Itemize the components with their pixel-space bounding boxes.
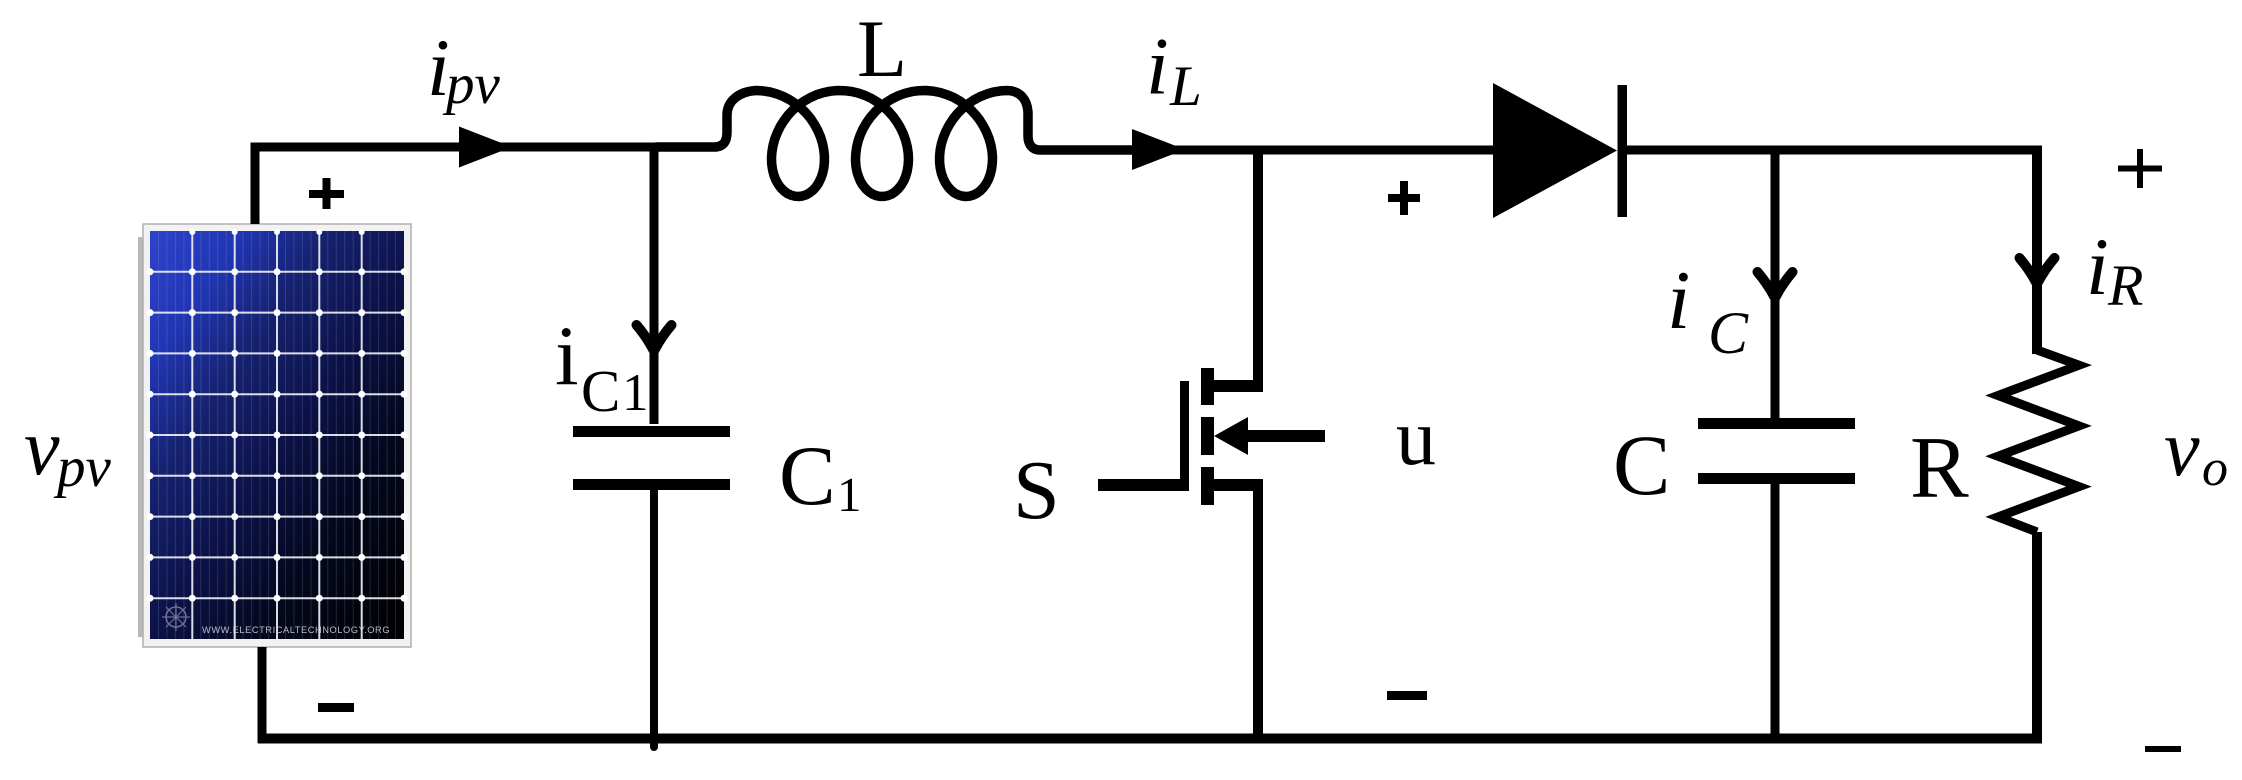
svg-text:i: i (1146, 21, 1169, 112)
wire: C bottom stem (1771, 478, 1780, 742)
MOSFET S: drain lead (1210, 380, 1263, 392)
arrow i_L (1132, 129, 1185, 170)
label i_pv (427, 22, 501, 116)
wire: right branch top (2032, 150, 2042, 354)
arrow chevron i_R (2020, 258, 2055, 283)
diode cathode bar (1618, 85, 1628, 217)
plus sign at panel positive terminal (309, 178, 344, 209)
svg-text:i: i (1667, 254, 1690, 347)
plus sign top right (2118, 149, 2162, 188)
svg-text:C: C (1708, 300, 1749, 366)
label C1 (779, 429, 862, 523)
svg-text:v: v (2164, 405, 2200, 493)
svg-text:R: R (1910, 420, 1969, 517)
svg-text:WWW.ELECTRICALTECHNOLOGY.ORG: WWW.ELECTRICALTECHNOLOGY.ORG (202, 625, 390, 635)
label i_C1 (555, 309, 649, 424)
plus sign near MOSFET drain (1388, 181, 1420, 215)
capacitor C1 (573, 432, 730, 485)
svg-text:R: R (2107, 253, 2143, 318)
minus sign at panel negative terminal (318, 703, 354, 712)
wire: panel plus lead (top-left vertical) (251, 147, 260, 224)
wire: capacitor C stem (1771, 150, 1780, 420)
svg-text:1: 1 (622, 364, 649, 422)
capacitor C plates (1698, 424, 1855, 479)
wire: top rail right of diode (1627, 146, 2042, 155)
label i_R (2086, 221, 2143, 318)
wire: panel minus lead (bottom-left vertical) (258, 647, 267, 743)
svg-text:S: S (1013, 444, 1060, 537)
solar panel PV module (138, 224, 411, 647)
wire: C1 stem from top rail (650, 147, 659, 424)
label i_L (1146, 21, 1202, 119)
wire: top rail between inductor and diode (1133, 146, 1496, 155)
svg-text:L: L (1169, 55, 1202, 118)
wire: bottom rail (258, 734, 2042, 744)
arrow chevron i_C1 (637, 325, 672, 350)
svg-text:C: C (1613, 417, 1670, 513)
wire: resistor bottom lead (2032, 532, 2042, 743)
svg-text:i: i (555, 309, 579, 403)
minus sign under u (1387, 691, 1427, 700)
label v_pv (24, 404, 112, 499)
svg-text:i: i (2086, 221, 2109, 312)
MOSFET gate lead from S (1098, 479, 1189, 491)
wire: top rail left of inductor (251, 143, 661, 152)
svg-text:pv: pv (442, 53, 501, 116)
svg-text:C: C (779, 429, 836, 523)
svg-text:u: u (1396, 394, 1436, 482)
label i_C (1667, 254, 1749, 366)
wire: MOSFET source stem to bottom rail (1253, 485, 1263, 742)
arrow i_pv (459, 127, 512, 168)
MOSFET source lead (1210, 479, 1263, 491)
wire: C1 bottom stem (650, 484, 658, 747)
minus sign bottom right (2145, 746, 2181, 752)
arrow chevron i_C (1758, 272, 1793, 297)
svg-text:o: o (2202, 440, 2228, 497)
MOSFET gate line (1180, 381, 1189, 486)
MOSFET body arrow (points left into channel) (1214, 417, 1248, 455)
wire: MOSFET drain stem (1253, 150, 1263, 391)
svg-text:v: v (24, 404, 60, 492)
inductor L (coil) and wire into it (656, 91, 1136, 197)
svg-text:1: 1 (837, 467, 862, 522)
svg-text:L: L (857, 3, 907, 94)
MOSFET channel bars (1201, 368, 1214, 505)
diode D1 triangle (1493, 83, 1617, 218)
svg-text:pv: pv (53, 436, 112, 499)
svg-text:C: C (581, 358, 620, 424)
resistor R zigzag (1998, 350, 2079, 532)
label v_o (2164, 405, 2228, 497)
